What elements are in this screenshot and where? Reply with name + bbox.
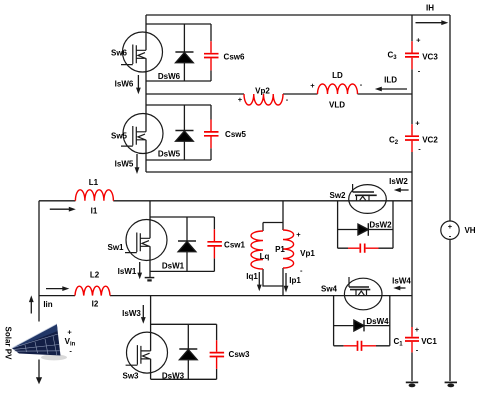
svg-text:IsW3: IsW3 [122,309,141,318]
svg-text:VH: VH [464,226,475,235]
svg-text:LD: LD [332,71,343,80]
svg-text:+: + [416,36,421,45]
svg-text:Csw3: Csw3 [229,350,250,359]
svg-text:+: + [415,119,420,128]
svg-text:Csw5: Csw5 [225,130,246,139]
svg-text:+: + [238,95,243,104]
svg-text:DsW5: DsW5 [158,150,181,159]
svg-text:+: + [448,222,453,231]
svg-text:VC3: VC3 [422,53,438,62]
svg-text:DsW2: DsW2 [369,221,392,230]
svg-text:Iin: Iin [43,300,52,309]
svg-text:Vp2: Vp2 [255,87,270,96]
svg-text:DsW4: DsW4 [366,317,389,326]
svg-text:Lq: Lq [260,252,270,261]
svg-text:VLD: VLD [329,101,345,110]
svg-text:VC1: VC1 [421,337,437,346]
svg-text:Sw5: Sw5 [111,132,128,141]
svg-text:P1: P1 [275,245,285,254]
svg-text:I2: I2 [92,300,99,309]
svg-text:+: + [310,81,315,90]
svg-text:+: + [415,325,420,334]
svg-text:IsW1: IsW1 [118,267,137,276]
svg-text:L1: L1 [89,178,99,187]
svg-text:Sw6: Sw6 [111,49,128,58]
svg-text:IH: IH [426,4,434,13]
svg-text:Csw1: Csw1 [224,241,245,250]
svg-text:DsW1: DsW1 [162,262,185,271]
svg-text:Sw1: Sw1 [107,243,124,252]
svg-text:Ip1: Ip1 [289,276,301,285]
svg-text:Sw4: Sw4 [321,285,338,294]
svg-text:Vp1: Vp1 [300,249,315,258]
svg-text:Solar PV: Solar PV [4,327,13,361]
svg-text:Csw6: Csw6 [224,53,245,62]
svg-text:Sw2: Sw2 [329,191,346,200]
svg-text:+: + [67,328,72,337]
svg-text:DsW3: DsW3 [162,372,185,381]
svg-text:Sw3: Sw3 [122,372,139,381]
svg-text:IsW6: IsW6 [115,80,134,89]
svg-text:I1: I1 [91,207,98,216]
svg-text:Iq1: Iq1 [246,272,258,281]
svg-text:IsW2: IsW2 [389,177,408,186]
svg-text:IsW5: IsW5 [115,160,134,169]
svg-text:VC2: VC2 [422,136,438,145]
svg-text:DsW6: DsW6 [158,72,181,81]
svg-text:IsW4: IsW4 [392,277,411,286]
svg-text:L2: L2 [90,271,100,280]
svg-text:+: + [296,230,301,239]
svg-text:ILD: ILD [384,76,397,85]
